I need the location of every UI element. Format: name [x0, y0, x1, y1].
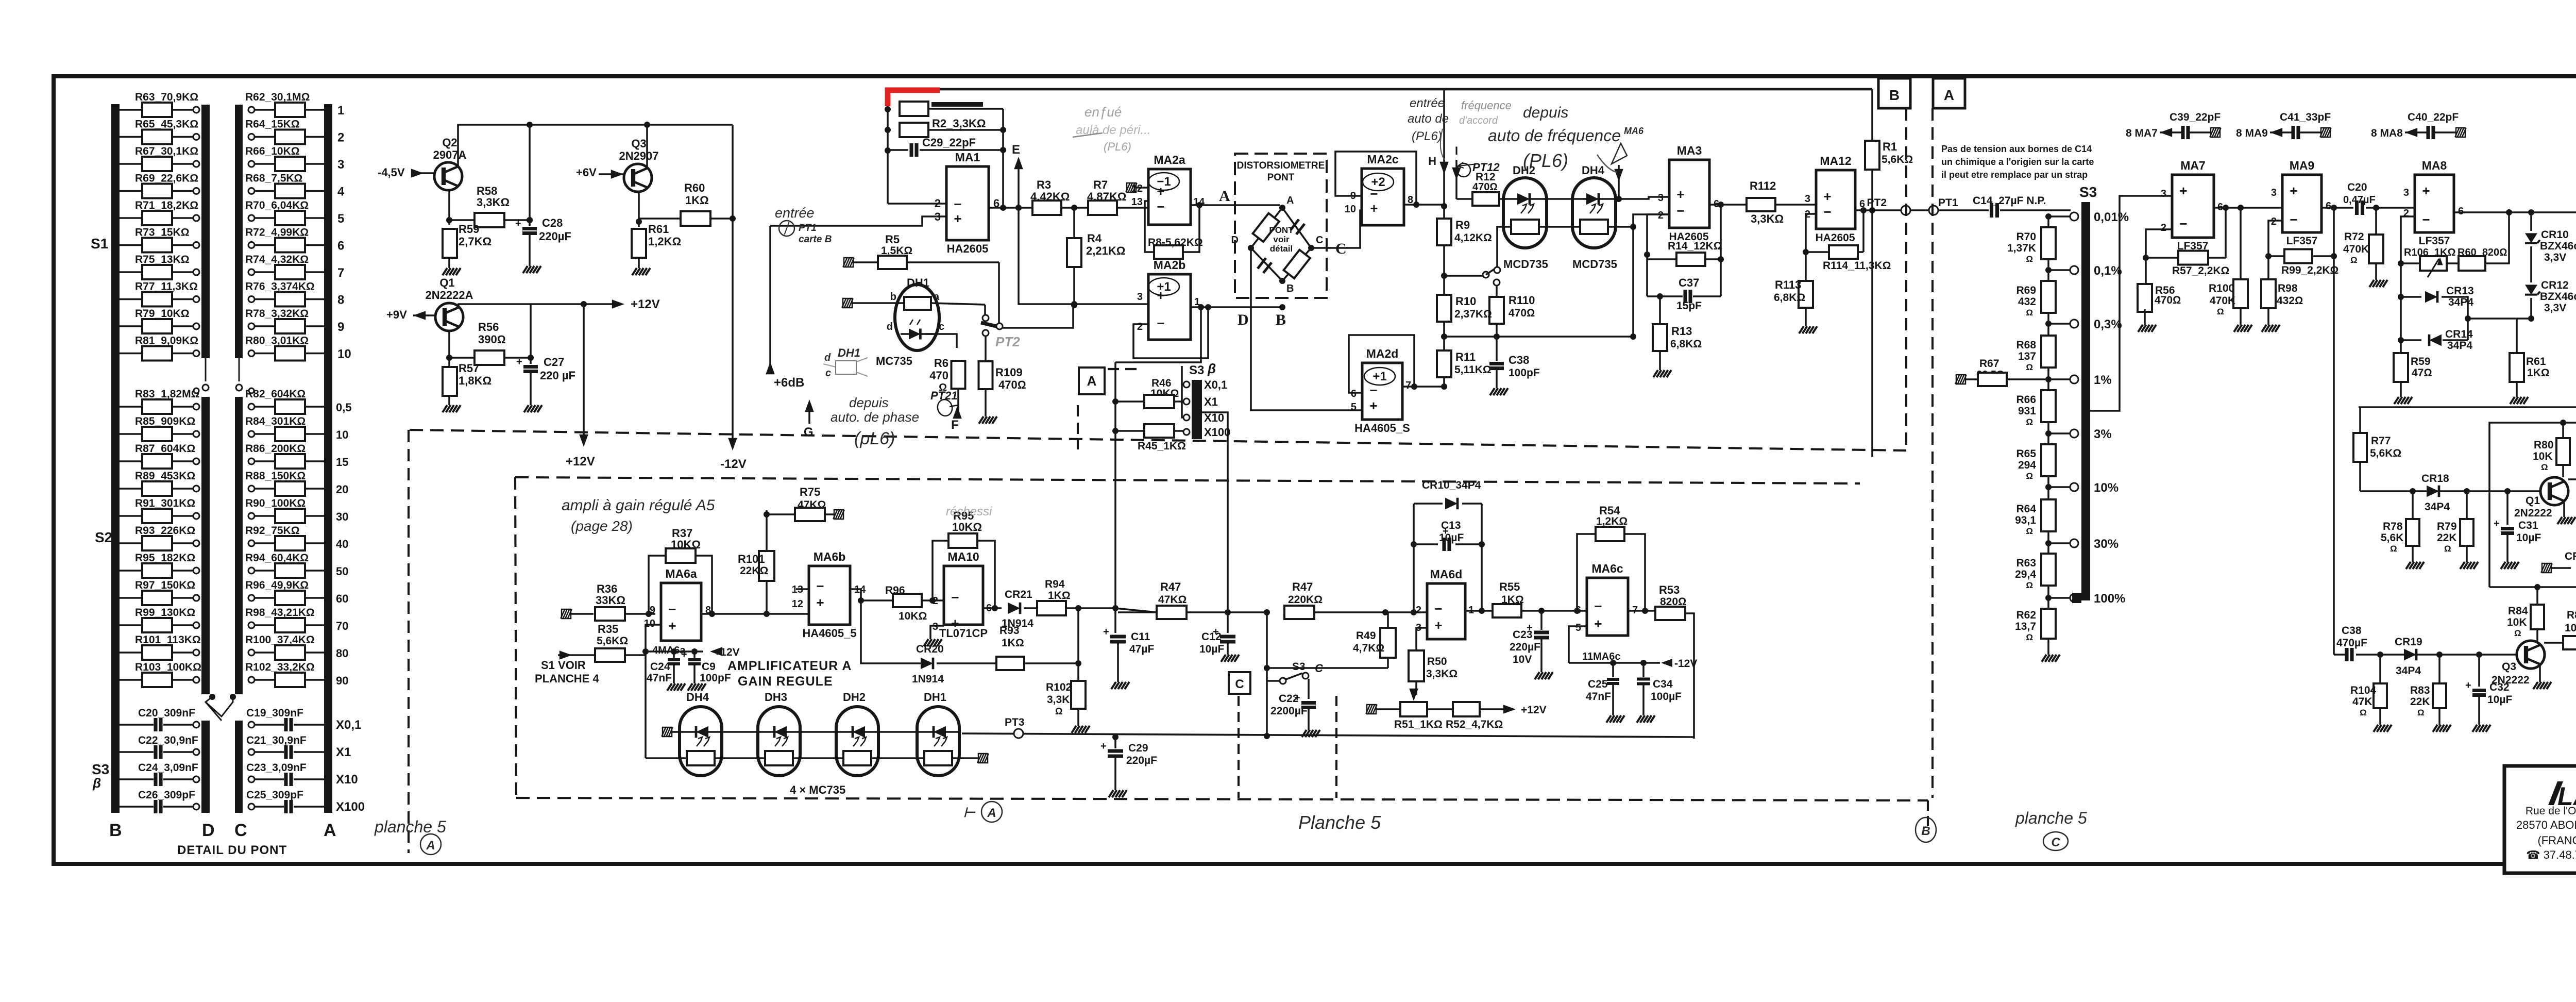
resistor R96 10K — [893, 594, 922, 607]
resistor R52 4,7K — [1453, 702, 1480, 716]
svg-text:R59: R59 — [2411, 356, 2431, 368]
hatch diode row left — [662, 727, 673, 737]
svg-text:R100: R100 — [2209, 282, 2234, 294]
svg-text:C20_309nF: C20_309nF — [138, 707, 195, 719]
capacitor C25 47nF — [1612, 663, 1614, 677]
svg-text:C24_3,09nF: C24_3,09nF — [138, 762, 198, 774]
svg-text:R69: R69 — [2016, 285, 2036, 296]
svg-text:auto de fréquence: auto de fréquence — [1488, 126, 1621, 145]
svg-text:R100_37,4KΩ: R100_37,4KΩ — [245, 634, 315, 646]
svg-text:R96: R96 — [885, 584, 905, 596]
svg-text:R75_13KΩ: R75_13KΩ — [135, 254, 190, 265]
resistor R64 (ladder S1 right row 2) — [248, 134, 255, 140]
svg-text:MA3: MA3 — [1677, 144, 1702, 157]
svg-text:1KΩ: 1KΩ — [1002, 637, 1024, 649]
test point PT3 — [1014, 729, 1023, 738]
supply node +12V — [646, 650, 703, 653]
svg-text:CR10: CR10 — [2541, 229, 2569, 241]
svg-text:C29: C29 — [1128, 742, 1148, 754]
svg-text:C41_33pF: C41_33pF — [2280, 111, 2331, 123]
svg-text:30%: 30% — [2094, 537, 2119, 551]
resistor R82 (ladder S2 right row 1) — [248, 404, 255, 410]
svg-text:il peut etre remplace par un s: il peut etre remplace par un strap — [1941, 170, 2088, 180]
svg-text:+1: +1 — [1372, 370, 1386, 383]
capacitor C14 27uF NP — [1938, 209, 1989, 211]
wire MA8 output row — [2454, 211, 2576, 213]
svg-text:931: 931 — [2018, 405, 2036, 417]
svg-text:C21_30,9nF: C21_30,9nF — [246, 734, 307, 746]
handwritten PT1 carte B — [779, 221, 794, 236]
wire Q3 emitter to rail — [646, 125, 648, 168]
resistor R62 13,7 — [2041, 609, 2056, 639]
svg-text:R95_182KΩ: R95_182KΩ — [135, 552, 195, 564]
svg-text:C14_27µF N.P.: C14_27µF N.P. — [1973, 195, 2046, 207]
resistor R102 3,3K — [1071, 681, 1086, 709]
capacitor C28 220uF — [529, 125, 531, 226]
svg-text:MA7: MA7 — [2180, 159, 2206, 172]
svg-text:MA10: MA10 — [947, 550, 979, 563]
svg-text:22K: 22K — [2410, 696, 2430, 708]
resistor R69 432 — [2041, 281, 2056, 313]
svg-text:7: 7 — [337, 266, 344, 280]
wire inner box right edge — [1871, 210, 1873, 457]
test point PT1 — [1929, 206, 1938, 215]
wire -12V drop — [732, 125, 734, 444]
svg-text:3: 3 — [2403, 187, 2409, 198]
op-amp MA2a — [1148, 169, 1191, 225]
svg-text:2: 2 — [337, 131, 344, 145]
svg-text:voir: voir — [1273, 235, 1290, 244]
resistor R99 2,2K — [2284, 249, 2312, 263]
wire Q2 emitter to top rail — [458, 125, 733, 166]
MA2d feedback loop — [1349, 335, 1414, 393]
wire pin10 node down — [642, 648, 649, 655]
svg-text:Ω: Ω — [2417, 708, 2425, 717]
svg-text:5,6KΩ: 5,6KΩ — [597, 635, 628, 647]
svg-text:TL071CP: TL071CP — [939, 627, 988, 640]
wire MA1 pin2 — [888, 203, 946, 205]
svg-text:−: − — [1434, 601, 1442, 616]
ground R61 det — [2516, 382, 2518, 393]
svg-text:C40_22pF: C40_22pF — [2408, 111, 2459, 123]
bridge arm cap A-C — [1291, 220, 1304, 235]
bus bar D segment S2 — [201, 397, 210, 694]
svg-text:d'accord: d'accord — [1459, 115, 1498, 126]
svg-text:R72_4,99KΩ: R72_4,99KΩ — [245, 227, 309, 239]
svg-text:R81_9,09KΩ: R81_9,09KΩ — [135, 335, 198, 347]
svg-text:8 MA9: 8 MA9 — [2236, 127, 2268, 139]
resistor R90 (ladder S2 right row 5) — [248, 513, 255, 519]
stray contact circles above S2 — [194, 388, 199, 393]
svg-text:c: c — [939, 321, 944, 332]
svg-text:R61: R61 — [648, 223, 669, 236]
svg-text:planche 5: planche 5 — [2015, 809, 2087, 827]
svg-text:E: E — [1012, 143, 1020, 157]
svg-text:3: 3 — [337, 158, 344, 172]
svg-text:R67: R67 — [1979, 358, 1999, 370]
op-amp MA9 LF357 — [2282, 175, 2321, 232]
svg-text:MCD735: MCD735 — [1572, 258, 1617, 271]
svg-text:ampli à gain régulé A5: ampli à gain régulé A5 — [562, 497, 715, 514]
svg-text:R84_301KΩ: R84_301KΩ — [245, 415, 306, 427]
svg-text:MA1: MA1 — [955, 151, 980, 164]
svg-text:4: 4 — [337, 185, 345, 199]
wire MA2b pin2 loop — [1133, 307, 1208, 358]
svg-text:depuis: depuis — [1523, 104, 1568, 121]
wire Q1 emitter to +12V rail — [459, 304, 618, 307]
svg-text:R93: R93 — [999, 625, 1020, 637]
svg-text:−: − — [1157, 315, 1164, 331]
svg-text:15: 15 — [336, 456, 348, 469]
svg-text:+: + — [954, 211, 961, 226]
svg-text:(PL6): (PL6) — [1523, 150, 1568, 171]
svg-text:R92_75KΩ: R92_75KΩ — [245, 525, 300, 537]
svg-text:R110: R110 — [1509, 294, 1535, 307]
diode CR13 34P4 — [2400, 263, 2402, 297]
svg-text:5,6K: 5,6K — [2381, 532, 2403, 544]
capacitor C21 (ladder S3 right row 2) — [248, 749, 255, 755]
resistor R81 (ladder S1 left row 10) — [120, 353, 142, 355]
svg-text:470K: 470K — [2210, 295, 2235, 307]
svg-text:7: 7 — [1405, 380, 1411, 391]
svg-text:enƒué: enƒué — [1084, 104, 1122, 120]
resistor R100 (ladder S2 right row 10) — [248, 649, 255, 656]
svg-text:2N2222A: 2N2222A — [426, 289, 473, 302]
svg-text:+12V: +12V — [566, 455, 595, 469]
wire R6 down to F — [957, 389, 959, 412]
svg-text:8 MA7: 8 MA7 — [2126, 127, 2158, 139]
wire Q2 collector — [448, 190, 450, 225]
wire MA2b node down to S3B — [1115, 307, 1201, 362]
svg-text:B: B — [1889, 87, 1900, 103]
svg-text:+: + — [816, 595, 824, 610]
ground R61 — [638, 258, 640, 264]
svg-text:10V: 10V — [1513, 654, 1532, 665]
resistor R61 1K det — [2516, 319, 2518, 353]
svg-text:5: 5 — [1351, 402, 1357, 413]
svg-text:+: + — [668, 618, 676, 633]
svg-text:1%: 1% — [2094, 373, 2112, 387]
svg-text:2,37KΩ: 2,37KΩ — [1454, 308, 1492, 320]
svg-text:C31: C31 — [2518, 520, 2538, 531]
bridge vertex dots and labels — [1279, 205, 1285, 211]
opto-coupler DH4 MCD735 — [1572, 178, 1616, 248]
border frame — [54, 76, 2576, 864]
svg-text:1,2KΩ: 1,2KΩ — [1596, 515, 1628, 527]
svg-text:2N2907: 2N2907 — [619, 149, 658, 162]
svg-text:R66: R66 — [2016, 394, 2036, 406]
wire MA2c output — [1404, 204, 1444, 206]
svg-text:R88_150KΩ: R88_150KΩ — [245, 470, 306, 482]
dashed boundary left vertical — [408, 430, 410, 853]
wire +6dB input — [769, 226, 771, 367]
wire bias row 1139 — [2489, 586, 2576, 588]
svg-text:+: + — [515, 218, 521, 229]
svg-text:R78: R78 — [2383, 521, 2403, 532]
svg-text:10µF: 10µF — [2487, 694, 2512, 706]
svg-text:+: + — [2422, 183, 2430, 198]
capacitor C24 47nF — [673, 652, 675, 658]
svg-text:R83: R83 — [2410, 684, 2430, 696]
wire MA7 pin2 node — [2146, 229, 2172, 285]
resistor R57 2,2K — [2178, 251, 2208, 265]
resistor R57 1,8K — [443, 367, 457, 396]
capacitor C32 10uF — [2478, 655, 2480, 687]
svg-text:10: 10 — [336, 428, 348, 441]
capacitor C19 (ladder S3 right row 1) — [248, 722, 255, 728]
svg-text:10KΩ: 10KΩ — [899, 610, 927, 622]
long wire PT3 row — [962, 733, 1694, 737]
arrow F — [953, 406, 962, 419]
resistor R73 (ladder S1 left row 6) — [120, 244, 142, 246]
svg-text:R61: R61 — [2526, 356, 2546, 368]
resistor R84 (ladder S2 right row 2) — [248, 431, 255, 437]
svg-text:+: + — [2465, 680, 2471, 691]
capacitor C29 22pF — [888, 149, 908, 151]
detector box outline — [2359, 212, 2576, 407]
svg-text:1KΩ: 1KΩ — [2527, 367, 2550, 379]
svg-text:+: + — [1823, 189, 1831, 204]
svg-text:X0,1: X0,1 — [1204, 378, 1227, 391]
diode CR14 34P4 — [2400, 297, 2402, 340]
svg-text:S1 VOIR: S1 VOIR — [541, 659, 586, 672]
svg-text:R13: R13 — [1671, 325, 1692, 338]
node E arrow — [1018, 162, 1020, 208]
title block outer — [2504, 766, 2576, 873]
zener CR10 BZX46c 3,3V — [2530, 212, 2532, 231]
hatch resistor row right — [952, 757, 978, 759]
resistor R69 (ladder S1 left row 4) — [120, 190, 142, 192]
svg-text:R112: R112 — [1750, 179, 1776, 192]
svg-text:R66_10KΩ: R66_10KΩ — [245, 145, 300, 157]
S3 attenuator bar — [2081, 202, 2090, 600]
resistor R68 (ladder S1 right row 4) — [248, 188, 255, 194]
svg-text:R67_30,1KΩ: R67_30,1KΩ — [135, 145, 198, 157]
svg-text:C38: C38 — [2342, 625, 2362, 637]
svg-text:R113: R113 — [1775, 278, 1801, 291]
svg-text:MA8: MA8 — [2422, 159, 2447, 172]
resistor R62 (ladder S1 right row 1) — [248, 107, 255, 113]
svg-text:470Ω: 470Ω — [998, 378, 1026, 391]
ground R72 — [2375, 263, 2377, 276]
svg-text:220 µF: 220 µF — [540, 369, 575, 382]
svg-text:C22: C22 — [1279, 693, 1299, 705]
resistor R1 5,6K — [1871, 89, 1873, 141]
resistor R109 470 — [985, 336, 987, 361]
svg-text:MA12: MA12 — [1820, 154, 1851, 168]
svg-text:+: + — [1594, 616, 1602, 631]
svg-text:R3: R3 — [1037, 178, 1051, 191]
resistor R75 (ladder S1 left row 7) — [120, 271, 142, 273]
wire base row Q1 — [2360, 490, 2541, 492]
tap 100% contact — [2072, 593, 2081, 603]
svg-text:R77: R77 — [2371, 435, 2391, 447]
svg-text:432Ω: 432Ω — [2277, 295, 2303, 307]
resistor R114 11,3K — [1829, 245, 1858, 259]
wire MA10 pin3 ground — [930, 626, 944, 635]
svg-text:1KΩ: 1KΩ — [1048, 590, 1071, 602]
hatch CR17 — [2541, 563, 2552, 573]
resistor R59 47 — [2400, 340, 2402, 353]
svg-text:CR21: CR21 — [1005, 589, 1032, 600]
bridge arm resistor B-C — [1284, 250, 1310, 278]
tap 0,01% — [2070, 212, 2078, 221]
wire row at 653 — [1444, 336, 1633, 338]
svg-text:DH4: DH4 — [686, 691, 709, 704]
wire R35 to pin10 — [625, 625, 661, 655]
svg-text:0,47µF: 0,47µF — [2343, 194, 2376, 206]
svg-text:I: I — [1455, 144, 1458, 157]
svg-text:MA2d: MA2d — [1366, 347, 1399, 360]
svg-text:10K: 10K — [2533, 450, 2553, 462]
wire MA6c output — [1628, 610, 1656, 612]
resistor R65 (ladder S1 left row 2) — [120, 136, 142, 138]
svg-text:5,6KΩ: 5,6KΩ — [2370, 447, 2401, 459]
svg-text:Ω: Ω — [2350, 255, 2358, 265]
opto-coupler DH2 MCD735 — [1503, 178, 1547, 248]
svg-text:34P4: 34P4 — [2425, 501, 2450, 513]
svg-text:PONT: PONT — [1267, 172, 1295, 183]
svg-text:−: − — [1157, 199, 1164, 214]
svg-text:R60: R60 — [684, 181, 705, 194]
ground R78 — [2412, 546, 2414, 558]
svg-text:B: B — [1921, 824, 1930, 838]
svg-text:40: 40 — [336, 538, 348, 550]
svg-text:R103_100KΩ: R103_100KΩ — [135, 661, 201, 673]
svg-text:390Ω: 390Ω — [478, 333, 506, 346]
svg-text:C27: C27 — [544, 356, 564, 369]
svg-text:S3: S3 — [1292, 661, 1306, 673]
capacitor C31 10uF — [2506, 491, 2509, 525]
svg-text:R71_18,2KΩ: R71_18,2KΩ — [135, 199, 198, 211]
svg-text:MCD735: MCD735 — [1503, 258, 1548, 271]
svg-text:47K: 47K — [2352, 696, 2372, 708]
transistor Q3 2N2222 — [2517, 641, 2545, 669]
svg-text:C24: C24 — [650, 661, 670, 673]
opto DH1 can bottom — [917, 707, 959, 776]
svg-text:A: A — [426, 839, 435, 853]
wire MA8 pin2 down — [2401, 216, 2415, 263]
wire MA6a output — [701, 613, 809, 615]
resistor R113 6,8K — [1805, 252, 1807, 281]
boxed letter C — [1229, 672, 1250, 694]
wire MA3 pin2 loop down — [1647, 214, 1669, 296]
contact X10 — [1183, 414, 1190, 421]
svg-text:5,11KΩ: 5,11KΩ — [1454, 364, 1492, 376]
svg-text:B: B — [1286, 283, 1294, 294]
svg-text:GAIN REGULE: GAIN REGULE — [738, 674, 833, 689]
resistor R64 93,1 — [2041, 499, 2056, 531]
svg-text:470Ω: 470Ω — [1472, 181, 1498, 193]
svg-text:D: D — [1231, 235, 1239, 246]
svg-text:470: 470 — [929, 369, 948, 382]
svg-text:10µF: 10µF — [1199, 643, 1224, 655]
svg-text:R109: R109 — [995, 366, 1023, 379]
svg-text:LF357: LF357 — [2286, 235, 2318, 247]
svg-text:R87_604KΩ: R87_604KΩ — [135, 443, 195, 455]
svg-text:Rue de l'Ornette: Rue de l'Ornette — [2526, 805, 2576, 817]
svg-text:R1: R1 — [1883, 140, 1897, 153]
svg-text:3%: 3% — [2094, 427, 2112, 441]
handwritten circled B — [1916, 817, 1936, 842]
svg-text:PT1: PT1 — [1938, 197, 1958, 209]
svg-text:R53: R53 — [1659, 583, 1680, 596]
svg-text:1,2KΩ: 1,2KΩ — [648, 235, 681, 248]
svg-text:−: − — [816, 578, 824, 594]
svg-text:R97_150KΩ: R97_150KΩ — [135, 579, 195, 591]
wire R96 to MA10 pin2 — [922, 599, 944, 602]
svg-text:C26_309pF: C26_309pF — [138, 789, 195, 801]
tap 0,1% — [2070, 266, 2078, 274]
svg-text:BZX46c: BZX46c — [2540, 291, 2576, 303]
svg-text:470Ω: 470Ω — [1509, 307, 1535, 319]
wire MA6d output — [1465, 610, 1493, 612]
svg-text:MC735: MC735 — [876, 355, 912, 368]
tap 1% — [2070, 375, 2078, 383]
svg-text:H: H — [1428, 155, 1436, 168]
wire MA2b output — [1191, 306, 1282, 308]
svg-text:un chimique a l'origien sur la: un chimique a l'origien sur la carte — [1941, 157, 2094, 167]
opto DH4 can bottom — [680, 707, 722, 776]
transistor Q1 2N2222A — [435, 303, 463, 331]
wire R49 bottom return — [1267, 667, 1388, 669]
switch contact 3 — [982, 330, 989, 336]
dashed stub right of boxed A — [1108, 368, 1141, 370]
svg-text:−: − — [1594, 598, 1602, 614]
op-amp MA8 LF357 — [2415, 175, 2454, 232]
vertical to R102 — [1077, 608, 1079, 681]
svg-text:5: 5 — [337, 212, 344, 226]
svg-text:S3: S3 — [1189, 363, 1204, 377]
ground R83 — [2438, 708, 2441, 721]
svg-text:+2: +2 — [1371, 175, 1385, 189]
bridge arm cap D-B — [1258, 258, 1272, 273]
resistor R83 (ladder S2 left row 1) — [120, 406, 142, 408]
resistor R63 29,4 — [2041, 554, 2056, 586]
ground R59 — [448, 258, 450, 264]
svg-text:2200µF: 2200µF — [1270, 705, 1308, 717]
svg-text:C: C — [1316, 235, 1323, 246]
dashed corner to circled B — [1927, 800, 1929, 831]
hatch R36 input — [561, 609, 572, 619]
svg-text:Q2: Q2 — [442, 136, 457, 149]
wire MA3 output — [1709, 204, 1747, 206]
svg-text:C9: C9 — [702, 661, 716, 673]
wire DH4 to MA3 pin3 — [1616, 197, 1669, 199]
svg-text:R52_4,7KΩ: R52_4,7KΩ — [1446, 719, 1503, 730]
svg-text:C23: C23 — [1513, 629, 1533, 641]
svg-text:A: A — [324, 821, 336, 840]
capacitor C23 (ladder S3 right row 3) — [248, 776, 255, 782]
svg-text:C25_309pF: C25_309pF — [246, 789, 303, 801]
svg-text:0,01%: 0,01% — [2094, 210, 2129, 224]
svg-text:−: − — [2290, 212, 2297, 227]
contact X100 — [1183, 429, 1190, 435]
boxed letter B — [1878, 78, 1910, 108]
svg-text:0,3%: 0,3% — [2094, 318, 2122, 331]
svg-text:R9: R9 — [1455, 219, 1470, 231]
svg-text:2: 2 — [1658, 210, 1664, 221]
svg-text:+12V: +12V — [1521, 704, 1547, 716]
svg-text:R62: R62 — [2016, 609, 2036, 621]
red annotation line — [888, 90, 940, 106]
bridge dashed box DISTORSIOMETRE PONT — [1235, 154, 1327, 298]
svg-text:2N2222: 2N2222 — [2514, 507, 2552, 519]
svg-text:C37: C37 — [1679, 276, 1699, 289]
svg-text:34P4: 34P4 — [2448, 296, 2473, 308]
svg-text:c: c — [825, 368, 831, 379]
svg-text:R74_4,32KΩ: R74_4,32KΩ — [245, 254, 309, 265]
